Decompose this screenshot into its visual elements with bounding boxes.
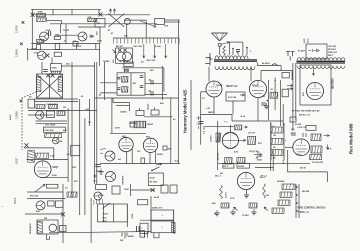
svg-text:DET-AVC: DET-AVC (328, 48, 337, 51)
arrow mid right (254, 153, 262, 155)
ground G11 (230, 209, 235, 215)
resistor R11 (67, 192, 77, 197)
V15 stem (246, 190, 248, 194)
wire y147.9 (24, 147, 54, 149)
svg-text:50C5: 50C5 (13, 197, 17, 204)
wire v x229.4 (228, 42, 230, 55)
junction X6 (25, 143, 29, 147)
wire top rail y9.3 (31, 8, 101, 10)
variable capacitor C7 (124, 18, 130, 24)
T3 cap a (124, 69, 129, 71)
wire v x281b (280, 80, 282, 126)
tube V5 envelope (34, 161, 51, 178)
arrow into C9 (112, 50, 116, 54)
tube V12 envelope (249, 80, 266, 97)
svg-text:TP-990 47Ω: TP-990 47Ω (312, 161, 324, 164)
wire v x275 (274, 80, 276, 110)
svg-text:A-425: A-425 (9, 114, 12, 120)
wire v x100 (99, 27, 101, 44)
arrow gnd a (234, 207, 238, 211)
capacitor C44 (290, 117, 296, 122)
resistor R5 hatch (52, 71, 61, 74)
coil L10 top row (215, 56, 248, 59)
wire v x164 (163, 68, 165, 92)
enclosure left rail (217, 121, 219, 170)
T11 core bar b (297, 62, 346, 64)
wire stub x75 (76, 44, 78, 50)
svg-text:4 P: 4 P (328, 148, 332, 151)
wire v tube2 top (250, 67, 252, 82)
wire v x91 (90, 198, 92, 243)
wire v rail x271 (270, 122, 272, 171)
antenna A1 (212, 33, 228, 41)
wire y116.8 (144, 116, 173, 118)
svg-text:40-40: 40-40 (150, 177, 156, 180)
wire B+ rail x191 (190, 80, 192, 150)
svg-text:.0I L4: .0I L4 (240, 115, 246, 118)
resistor R2 (37, 18, 47, 22)
capacitor C26 (96, 185, 107, 190)
wire step d (128, 103, 130, 112)
wire left rail r (200, 92, 202, 145)
svg-text:4G5: 4G5 (112, 59, 115, 63)
wire antenna lead (219, 46, 221, 55)
arrow tube13 out (239, 139, 246, 141)
svg-text:35W4 117V: 35W4 117V (152, 207, 163, 210)
hatch col small (172, 222, 176, 232)
wire y65.5 (257, 65, 281, 67)
wire bus y101.5 (35, 101, 79, 103)
speaker field coil (37, 222, 42, 234)
resistor R1 (37, 13, 46, 16)
capacitor C10b (43, 70, 48, 72)
capacitor C12 (47, 111, 55, 118)
wire y121 vol (36, 120, 67, 122)
AC plug prongs (286, 51, 295, 56)
T2 center line (49, 74, 51, 98)
junction X7 (61, 212, 65, 216)
wire bus y98 (95, 97, 179, 99)
svg-text:AI-990U: AI-990U (262, 62, 270, 65)
capacitor C6 (55, 44, 60, 50)
wire step a (112, 98, 114, 103)
svg-text:SPEAKER: SPEAKER (29, 223, 32, 234)
ground G1 (98, 169, 103, 175)
svg-text:TO ANT: TO ANT (298, 50, 306, 53)
resistor R9 (45, 134, 62, 138)
svg-text:Max 1→: Max 1→ (215, 176, 223, 178)
resistor R40 (223, 46, 226, 55)
wire step b (113, 102, 129, 104)
transistor Q10 (38, 51, 46, 59)
svg-text:75 45K: 75 45K (242, 214, 249, 217)
bottom bus arc (49, 232, 151, 233)
svg-text:500Ω: 500Ω (103, 214, 108, 216)
junction dot b (246, 47, 248, 49)
T2 secondary coil (58, 77, 62, 92)
junction dot d (267, 100, 269, 102)
diode mark (90, 35, 94, 38)
rectifier tube V10 envelope (307, 83, 324, 100)
capacitor C48 (223, 164, 234, 169)
wire top bus A (32, 14, 150, 16)
junction X4 (46, 74, 50, 78)
svg-text:250R0N: 250R0N (277, 181, 285, 183)
wire v x178 low (177, 140, 179, 164)
resistor R53 (311, 146, 322, 153)
transistor Q2 (78, 32, 87, 41)
T3 divider (130, 73, 132, 95)
svg-text:AP-40: AP-40 (300, 167, 307, 170)
svg-text:PWR-OUT: PWR-OUT (328, 52, 338, 54)
capacitor C23 (48, 201, 54, 206)
wire v x233b (232, 101, 234, 115)
svg-text:12BA6: 12BA6 (15, 49, 19, 57)
svg-text:12AT6: 12AT6 (15, 25, 19, 33)
resistor R44 small (216, 133, 221, 142)
wire gang bus (124, 19, 146, 21)
resistor R49 (263, 184, 266, 198)
svg-text:47K: 47K (258, 142, 262, 145)
svg-text:100Ω .05: 100Ω .05 (297, 127, 306, 129)
wire step c (116, 105, 129, 107)
C15 tab (139, 108, 141, 111)
svg-text:.05 MF: .05 MF (294, 124, 301, 126)
svg-text:47Ω 220: 47Ω 220 (30, 195, 39, 198)
trimmer arrow b (113, 9, 115, 14)
capacitor C13 (151, 80, 153, 85)
wire y177.7 (40, 177, 68, 179)
wire v rail x171 (170, 98, 172, 164)
resistor R45 (248, 136, 256, 144)
wire v x268 (267, 80, 269, 120)
ground G10 (244, 192, 249, 198)
resistor R4 (37, 39, 45, 42)
wire v x327 (326, 172, 328, 182)
arrow R43 (244, 126, 247, 128)
transistor Q5 (53, 138, 59, 144)
capacitor C50 (291, 133, 296, 135)
wire y123 vol (36, 122, 67, 124)
transistor Q1 (40, 32, 49, 41)
wire v x53.8 (53, 148, 55, 160)
svg-text:12SQ7: 12SQ7 (252, 85, 259, 87)
wire v x238 (237, 51, 239, 55)
junction X5 (51, 74, 55, 78)
svg-text:12SK7: 12SK7 (216, 85, 223, 87)
svg-text:∿∿: ∿∿ (224, 121, 228, 124)
margin mark a (22, 21, 25, 24)
wire v rail x80 (79, 99, 81, 215)
wire y94.4 (145, 93, 167, 95)
svg-text:220K: 220K (52, 175, 57, 177)
resistor R54 (310, 155, 322, 160)
wire v x155.6 below (155, 150, 157, 164)
wire bus y133.3 (110, 132, 146, 134)
terminal dot (174, 232, 176, 234)
resistor R8 (57, 111, 65, 116)
junction X2 (99, 13, 103, 17)
wire L x243 (229, 41, 243, 43)
wire stub x96 (95, 44, 97, 50)
svg-text:RECT: RECT (328, 55, 334, 57)
wire y159.6 (27, 159, 69, 161)
wire v rail x97 (96, 62, 98, 184)
capacitor C43 (306, 126, 316, 131)
capacitor C49 (237, 164, 249, 169)
arrow on bus (156, 163, 162, 165)
svg-text:10K: 10K (266, 195, 270, 197)
capacitor C27 (112, 186, 120, 194)
wire osc line b (164, 21, 179, 23)
svg-text:4 P-T: 4 P-T (224, 165, 230, 168)
wire osc line a (164, 19, 179, 21)
wire v x247 (246, 47, 248, 55)
junction X8 (151, 188, 155, 192)
svg-text:RE-988: RE-988 (302, 191, 310, 193)
wire v x292 (291, 71, 293, 80)
T3 stem a (124, 69, 126, 72)
capacitor C2b stub (98, 9, 100, 15)
arrow diag bl (35, 184, 45, 192)
antenna tap arrow (221, 42, 230, 45)
capacitor C47 (261, 103, 266, 105)
arrow right b (287, 88, 293, 90)
resistor R52 (311, 134, 321, 141)
svg-text:↓: ↓ (147, 102, 148, 105)
trimmer arrow a (109, 9, 111, 14)
wire v x126.7 below (126, 152, 128, 164)
resistor R3 (88, 19, 97, 22)
capacitor C5 (37, 45, 41, 50)
svg-text:Rex Model 988: Rex Model 988 (348, 123, 353, 154)
arrow right a (287, 84, 293, 86)
svg-text:12SQ7 A4: 12SQ7 A4 (249, 150, 259, 153)
wire v x281 (280, 66, 282, 71)
plug stem (289, 56, 291, 60)
wire v x155 arrow (154, 44, 156, 58)
svg-text:470K: 470K (52, 67, 58, 70)
ground G13 (264, 103, 269, 109)
svg-text:(2.2K): (2.2K) (226, 192, 228, 198)
wire bus y43.5 (31, 43, 100, 45)
svg-text:OSC 262: OSC 262 (133, 46, 143, 48)
capacitor C25 (60, 226, 67, 232)
capacitor C41 (236, 50, 240, 52)
T3 secondary coil (122, 87, 129, 92)
coil core bar b (214, 60, 257, 62)
coil core bar a (214, 59, 257, 61)
svg-text:PM: PM (44, 218, 47, 220)
svg-text:470K: 470K (31, 47, 36, 50)
svg-text:B4FF: B4FF (208, 111, 214, 114)
svg-text:40-40: 40-40 (154, 196, 160, 199)
resistor R61 (272, 208, 284, 214)
wire bus y99 (35, 98, 79, 100)
tube V11 envelope (206, 81, 222, 97)
capacitor C17 (163, 146, 167, 150)
T3 trimmer b (140, 86, 144, 88)
tuning capacitor C9 rotor b (123, 52, 132, 61)
wire bus y114.5 (200, 114, 232, 116)
tube V14 envelope (293, 139, 310, 156)
output block inner v b (113, 204, 115, 222)
resistor R47 (225, 158, 233, 165)
wire v rail x162 (161, 66, 163, 100)
wire y190b (131, 189, 156, 191)
svg-text:GND: GND (132, 213, 134, 218)
wire v x127.3 (126, 204, 128, 227)
wire v x283 (282, 104, 284, 126)
wire y198.4 (27, 197, 66, 199)
svg-text:OSC: OSC (96, 23, 101, 25)
gang capacitor frame b (108, 14, 124, 28)
T3 left cap a (117, 77, 120, 79)
wire y220.2 (140, 219, 174, 221)
wire into can b (100, 92, 117, 94)
wire v rail x293 (292, 63, 294, 131)
tuning capacitor C9 frame (116, 48, 133, 63)
T2 diagonal a (37, 74, 63, 98)
switch S2 blade (152, 167, 160, 171)
svg-text:150K: 150K (124, 189, 129, 191)
svg-text:35W4: 35W4 (157, 153, 163, 156)
svg-text:C-4 .45A: C-4 .45A (203, 125, 206, 134)
transistor Q3 (36, 111, 44, 119)
svg-text:12BE6: 12BE6 (103, 61, 110, 63)
line filter frame (306, 44, 327, 59)
capacitor C18 (95, 165, 101, 167)
svg-text:10M: 10M (72, 167, 76, 169)
T3 primary coil (122, 77, 129, 83)
wire mid bus (47, 20, 62, 22)
wire y91.8 (201, 91, 206, 93)
arrow R41 (240, 94, 245, 96)
wire v x151 (150, 196, 152, 233)
svg-text:470K: 470K (115, 127, 120, 130)
speaker frame (37, 220, 58, 234)
wire step r1 (256, 62, 258, 65)
shield dashed diagonal (22, 92, 37, 98)
tuning capacitor C9 rotor a (117, 52, 126, 61)
stub b (144, 232, 147, 238)
capacitor C30 (140, 223, 148, 233)
electrolytic C32 (137, 226, 140, 232)
stem T (147, 104, 149, 110)
svg-text:448 A2F: 448 A2F (217, 152, 220, 160)
power transformer T11 top (297, 58, 345, 61)
wire v x60 (59, 24, 61, 33)
svg-text:—: — (1, 204, 4, 208)
resistor R42 (270, 92, 278, 98)
ground G14 (214, 210, 219, 216)
wire y27 (78, 26, 100, 28)
capacitor C20 (43, 127, 65, 132)
wire v x130.5 (130, 184, 132, 196)
resistor R10 (36, 153, 49, 158)
transistor Q11 (106, 172, 116, 182)
stub c (154, 233, 159, 238)
svg-text:MF-AO .02: MF-AO .02 (299, 114, 311, 117)
svg-text:455KC: 455KC (257, 155, 264, 158)
resistor R51 (249, 203, 257, 208)
speaker voice circle (49, 224, 57, 232)
arrow right c (324, 134, 330, 136)
contact dot b (296, 194, 298, 196)
tube V15 envelope (237, 172, 254, 189)
wire v x144 arrow (143, 44, 145, 58)
terminal box B (151, 221, 174, 233)
ground G12 (251, 209, 256, 215)
wire v x166 arrow (165, 44, 167, 58)
T2 diagonal b (37, 74, 63, 98)
wire v x284 (283, 123, 285, 160)
wire v rail x72 (71, 62, 73, 198)
T11 core bar a (297, 60, 346, 62)
oscillator coil T1 (95, 18, 105, 27)
contact dot c (296, 202, 298, 204)
wire bus y126.3 (205, 125, 235, 127)
svg-text:→: → (247, 123, 249, 125)
wire v x126.7 (126, 25, 128, 38)
wire v rail x89.5 (89, 99, 91, 126)
wire v x66 (65, 24, 67, 44)
capacitor C45 (199, 122, 204, 124)
svg-text:12BA6: 12BA6 (120, 111, 127, 114)
switch rail b (298, 184, 300, 218)
junction X3 (46, 53, 50, 57)
resistor R55 (271, 127, 283, 133)
svg-text:1M: 1M (273, 135, 276, 137)
svg-text:12BE6: 12BE6 (15, 111, 19, 119)
wavy marks (100, 148, 106, 154)
choke hump (272, 64, 278, 66)
svg-text:1M: 1M (63, 107, 66, 109)
tube V4 envelope (143, 138, 157, 152)
wire bus y172 (287, 171, 327, 173)
wire v x63 (62, 184, 64, 243)
capacitor C4b (73, 42, 78, 47)
output block frame (97, 204, 127, 222)
T3 trimmer a (140, 76, 144, 78)
arrow diag rotor (140, 21, 156, 27)
coil L10 bottom row (215, 66, 255, 69)
wire v x233 (232, 48, 234, 55)
wire left rail b (27, 48, 29, 61)
svg-text:A 600: A 600 (155, 45, 162, 48)
T3 left cap b (117, 88, 120, 90)
wire v tube13 top (229, 125, 231, 132)
grid resistor block R41 (226, 92, 245, 101)
svg-text:45K: 45K (212, 202, 216, 205)
svg-text:Harmony Model M-425: Harmony Model M-425 (183, 89, 188, 133)
svg-text:455 KC: 455 KC (116, 45, 124, 48)
wire v x214 below (213, 97, 215, 115)
wire y70.6 (261, 70, 292, 72)
svg-text:100R4: 100R4 (147, 123, 154, 126)
capacitor C29 (138, 200, 148, 205)
arrow gnd b (264, 207, 268, 211)
coupling box (130, 122, 134, 127)
svg-text:A+B-: A+B- (175, 160, 180, 163)
svg-text:200Ω: 200Ω (257, 160, 262, 162)
svg-text:OSC-MIX: OSC-MIX (328, 46, 337, 48)
wire v x261 (260, 71, 262, 80)
wire v x132 below (131, 149, 133, 164)
tube V3 envelope (119, 137, 133, 151)
svg-text:TONE CONTROL SWITCH: TONE CONTROL SWITCH (297, 208, 326, 210)
wire step down (61, 21, 63, 24)
